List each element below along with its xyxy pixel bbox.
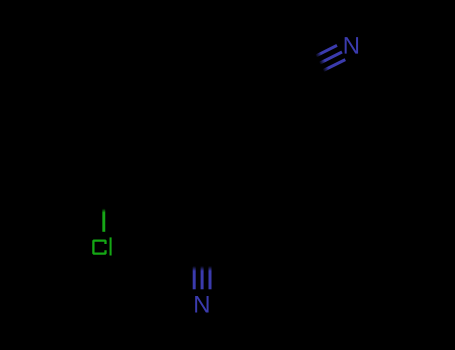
- nitrile 2 atom label N: [345, 37, 358, 54]
- nitrile 1 triple bond C#N (vertical, blue halves): [194, 265, 210, 290]
- bond C-Cl (ring half, black/invisible): [102, 188, 105, 210]
- naphthalene skeleton (black on black, invisible as in source): [104, 119, 264, 211]
- nitrile 2 triple bond C#N (diagonal, blue halves): [314, 45, 345, 71]
- nitrile 1 atom label N: [195, 296, 208, 313]
- atom label Cl: [93, 241, 105, 254]
- bond C-Cl (Cl half, green): [102, 207, 105, 232]
